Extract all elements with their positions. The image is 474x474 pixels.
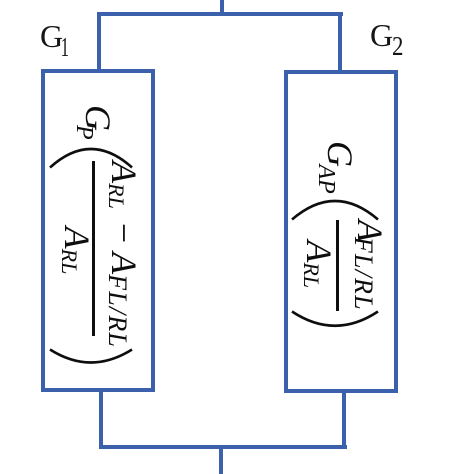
G1 close parenthesis (48, 347, 134, 371)
G2 gain term Gap (320, 141, 358, 194)
G1 fraction (Arl - Afl/rl)/Arl (57, 161, 142, 348)
box G1 (41, 69, 155, 392)
label G1 (40, 18, 69, 63)
label G2 (370, 17, 405, 62)
G2 fraction Afl/rl / Arl (300, 220, 388, 311)
wire top horizontal (97, 12, 343, 16)
wire top stub (220, 0, 224, 14)
formula G2 (299, 141, 389, 333)
wire left drop to G1 (97, 12, 101, 70)
formula G1 (57, 107, 143, 371)
wire bottom stub (219, 449, 223, 474)
G2 open parenthesis (290, 198, 380, 222)
box G2 (284, 70, 398, 393)
wire right bottom (342, 392, 346, 449)
G2 close parenthesis (290, 309, 380, 333)
wire bottom horizontal (99, 445, 347, 450)
G1 gain term Gp (78, 105, 116, 140)
wire right drop to G2 (338, 12, 342, 70)
wire left bottom (99, 391, 103, 449)
G1 open parenthesis (48, 146, 134, 170)
